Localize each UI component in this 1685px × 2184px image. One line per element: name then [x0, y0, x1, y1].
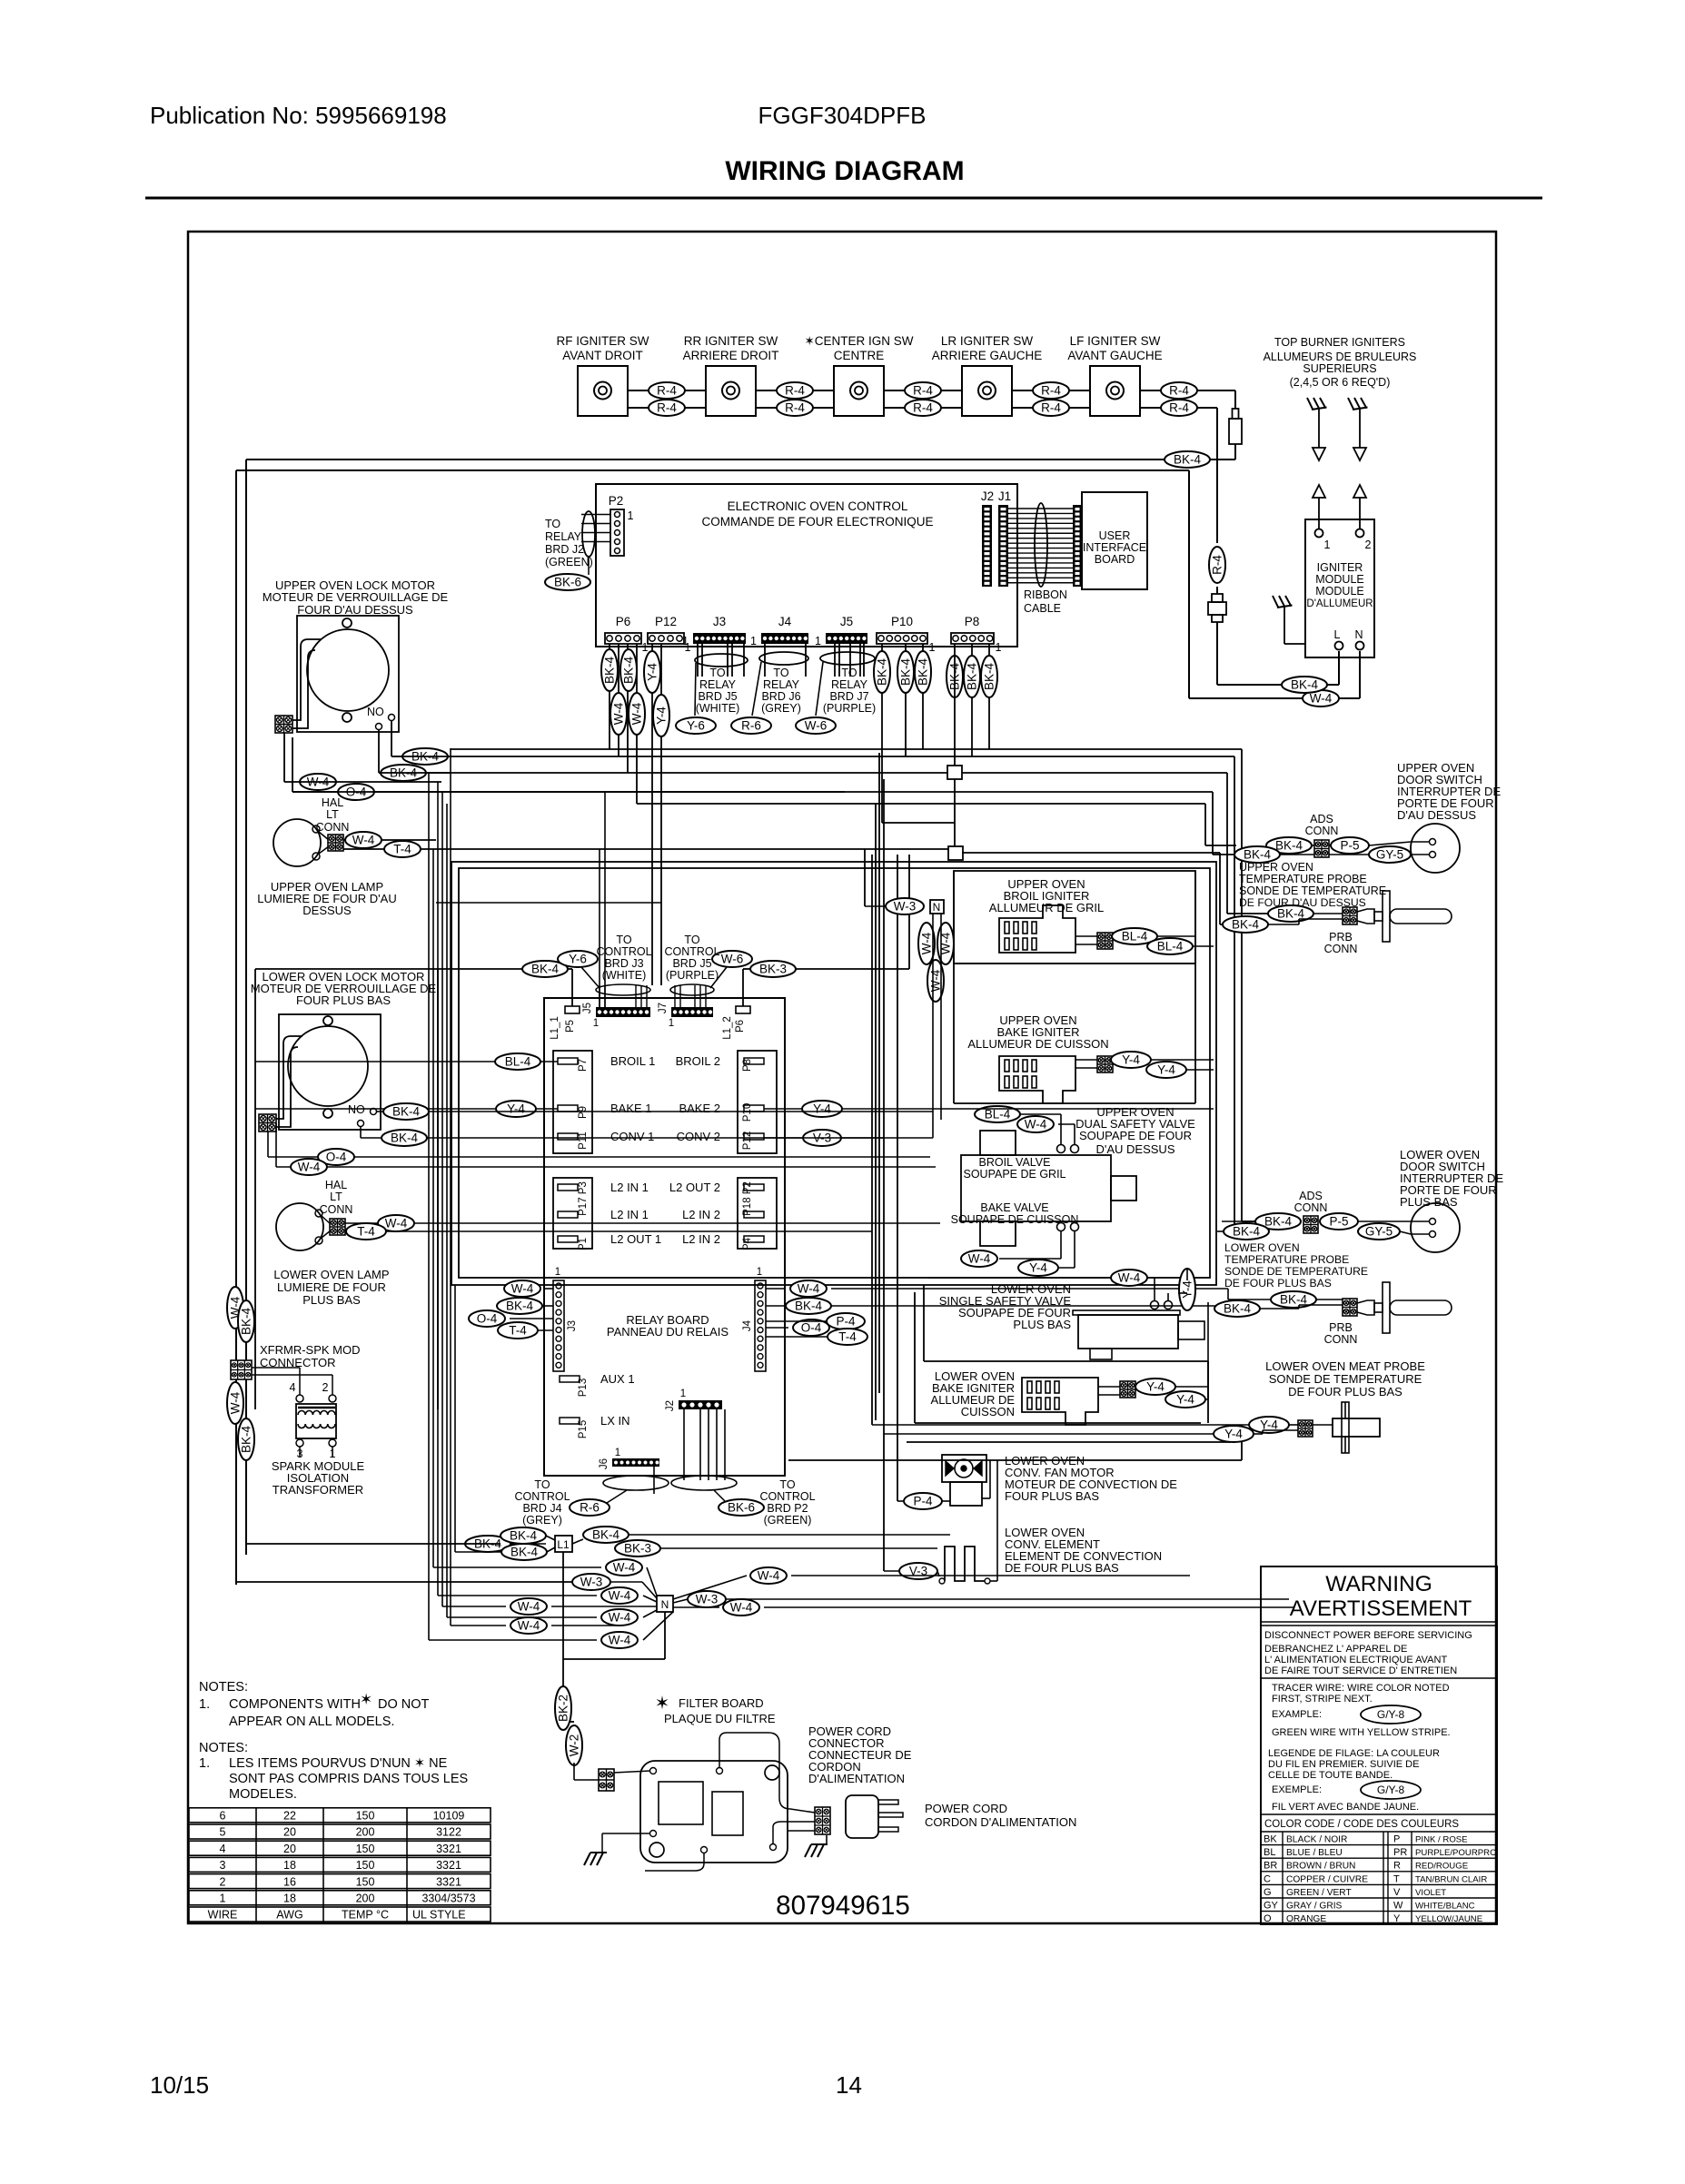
- svg-text:BK-4: BK-4: [391, 1132, 419, 1145]
- bus wire y=851: [379, 772, 1227, 774]
- svg-text:BK-4: BK-4: [1264, 1215, 1293, 1229]
- svg-text:ALLUMEUR DE CUISSON: ALLUMEUR DE CUISSON: [967, 1037, 1108, 1051]
- svg-text:W-4: W-4: [352, 834, 375, 847]
- svg-text:BK-4: BK-4: [1224, 1302, 1252, 1316]
- lower lamp connector: [330, 1219, 345, 1235]
- svg-text:ORANGE: ORANGE: [1286, 1914, 1326, 1924]
- svg-text:R-4: R-4: [913, 384, 933, 398]
- svg-text:ADS: ADS: [1299, 1190, 1323, 1202]
- label oval W-4 (lower motor): [291, 1159, 327, 1175]
- wire J3 bundle to Y-6: [695, 663, 696, 716]
- svg-text:P17 P3: P17 P3: [578, 1181, 589, 1216]
- label oval W-2 vertical: [566, 1725, 582, 1765]
- wire valve bottom Y-4: [1074, 1231, 1075, 1268]
- svg-text:WIRING DIAGRAM: WIRING DIAGRAM: [725, 156, 964, 186]
- label oval BK-4 vertical (P6 b): [620, 649, 637, 691]
- igniter switch box 1 (RF IGNITER SW): [578, 366, 628, 416]
- svg-text:CONTROL: CONTROL: [664, 945, 719, 958]
- svg-text:BLUE / BLEU: BLUE / BLEU: [1286, 1848, 1343, 1858]
- svg-text:LX IN: LX IN: [600, 1414, 630, 1428]
- wire vertical x=1309 (N feed): [1188, 470, 1190, 698]
- wire junction B to upper ADS: [962, 852, 1220, 854]
- svg-text:VIOLET: VIOLET: [1415, 1888, 1446, 1898]
- spark transformer terminals bottom: [296, 1439, 303, 1447]
- wires lower probe: [1316, 1299, 1343, 1300]
- svg-text:R-4: R-4: [785, 384, 805, 398]
- svg-text:P10: P10: [891, 615, 913, 628]
- svg-text:Y-4: Y-4: [1157, 1063, 1175, 1077]
- relay connector J7: [671, 1007, 713, 1017]
- label oval BK-4 (L1 far left): [465, 1536, 510, 1552]
- svg-text:MODULE: MODULE: [1315, 573, 1363, 586]
- central vertical bus: [871, 855, 873, 1425]
- label oval BK-4 (L1 left lower): [501, 1544, 547, 1560]
- svg-text:J5: J5: [840, 615, 853, 628]
- spark module connector: [1212, 594, 1223, 602]
- svg-text:TO: TO: [534, 1478, 550, 1491]
- wire igniter row bottom segment 3: [884, 407, 962, 409]
- svg-text:P-5: P-5: [1329, 1215, 1348, 1229]
- wire L pin vertical: [1338, 651, 1340, 685]
- filter board inner rect A: [659, 1782, 703, 1824]
- wire plug ground: [826, 1835, 828, 1844]
- svg-text:Y-4: Y-4: [1146, 1380, 1165, 1394]
- svg-text:ADS: ADS: [1310, 813, 1333, 825]
- relay board box: [544, 998, 785, 1476]
- svg-text:BRD J5: BRD J5: [672, 957, 711, 970]
- label oval V-3 (conv element): [899, 1563, 937, 1579]
- svg-text:W-4: W-4: [758, 1569, 780, 1583]
- svg-text:D'AU DESSUS: D'AU DESSUS: [1397, 808, 1476, 822]
- svg-text:NOTES:: NOTES:: [199, 1741, 248, 1755]
- label oval BK-4 (lower motor b): [382, 1130, 427, 1146]
- svg-text:WARNING: WARNING: [1325, 1572, 1432, 1596]
- svg-text:W-4: W-4: [612, 702, 626, 725]
- label oval R-4 vertical: [1209, 547, 1225, 583]
- bus wire y=825: [451, 748, 1242, 750]
- wire W-4 to valve top: [1058, 1123, 1075, 1125]
- svg-text:J3: J3: [713, 615, 726, 628]
- svg-text:CONN: CONN: [1294, 1201, 1328, 1214]
- wire valve bottom W-4: [1060, 1231, 1062, 1259]
- svg-text:4: 4: [290, 1381, 296, 1394]
- label oval W-6: [796, 717, 836, 734]
- svg-text:3122: 3122: [436, 1826, 461, 1839]
- svg-text:P8: P8: [965, 615, 980, 628]
- wires lower bake igniter: [1175, 1386, 1208, 1388]
- svg-text:BK-4: BK-4: [592, 1528, 620, 1542]
- upper oven lamp: [273, 819, 321, 866]
- dual valve top port: [980, 1131, 1016, 1155]
- svg-text:W-6: W-6: [721, 953, 744, 966]
- svg-text:BROWN / BRUN: BROWN / BRUN: [1286, 1862, 1355, 1872]
- svg-text:P12: P12: [655, 615, 677, 628]
- lower prb connector and probe: [1343, 1299, 1357, 1316]
- svg-text:1: 1: [680, 1388, 686, 1399]
- svg-text:P-4: P-4: [913, 1495, 933, 1508]
- wire igniter row top segment 4: [1012, 390, 1090, 391]
- svg-text:BK-4: BK-4: [1275, 839, 1303, 853]
- dual valve right port: [1111, 1176, 1136, 1201]
- svg-text:Y-6: Y-6: [569, 953, 587, 966]
- svg-text:RR IGNITER SW: RR IGNITER SW: [684, 334, 778, 348]
- svg-text:TO: TO: [545, 518, 560, 530]
- svg-text:Y-4: Y-4: [1029, 1261, 1047, 1275]
- svg-text:P6: P6: [735, 1020, 746, 1033]
- label oval R-4 top 5: [1161, 382, 1197, 399]
- svg-text:BK-4: BK-4: [531, 963, 560, 976]
- svg-text:P: P: [1393, 1834, 1400, 1845]
- label oval BK-4 (upper probe b): [1223, 916, 1268, 933]
- igniter switch box 5 (LF IGNITER SW): [1090, 366, 1140, 416]
- label oval W-4 vertical (left b): [227, 1382, 243, 1424]
- svg-text:W-6: W-6: [805, 719, 828, 733]
- svg-text:TO: TO: [779, 1478, 795, 1491]
- svg-text:Y-4: Y-4: [646, 663, 659, 681]
- relay right pin block P2/P18/P4: [738, 1178, 777, 1249]
- svg-text:Y-4: Y-4: [1122, 1053, 1140, 1067]
- svg-text:150: 150: [356, 1843, 375, 1855]
- lower door switch: [1411, 1203, 1460, 1252]
- wire O-4 feed to relay J5: [604, 792, 606, 1007]
- svg-text:18: 18: [283, 1859, 296, 1872]
- svg-text:3: 3: [220, 1859, 226, 1872]
- label oval BK-4 vertical (P8 c): [981, 656, 997, 697]
- label oval R-4 top 4: [1033, 382, 1069, 399]
- svg-text:BL-4: BL-4: [505, 1055, 531, 1069]
- svg-text:RF IGNITER SW: RF IGNITER SW: [557, 334, 649, 348]
- upper oven sub-box inner: [459, 868, 1210, 1278]
- svg-text:R-4: R-4: [1041, 384, 1061, 398]
- title rule: [145, 197, 1542, 200]
- label oval R-4 top 1: [649, 382, 685, 399]
- svg-text:R-4: R-4: [1169, 384, 1189, 398]
- svg-text:FGGF304DPFB: FGGF304DPFB: [758, 102, 927, 129]
- label oval Y-4 (bake a): [1111, 1052, 1151, 1068]
- label oval P-5 (ads upper): [1331, 837, 1369, 854]
- svg-text:MODULE: MODULE: [1315, 585, 1363, 598]
- svg-text:(WHITE): (WHITE): [696, 702, 740, 715]
- ribbon cable wires: [1008, 508, 1073, 509]
- svg-text:(2,4,5 OR 6 REQ'D): (2,4,5 OR 6 REQ'D): [1290, 376, 1391, 389]
- warning box: [1261, 1566, 1497, 1924]
- svg-text:BK-4: BK-4: [240, 1308, 253, 1336]
- svg-text:R-4: R-4: [1211, 555, 1224, 575]
- svg-text:G: G: [1264, 1887, 1272, 1898]
- wire lower NO BK-4: [377, 1111, 391, 1112]
- svg-text:BK-4: BK-4: [899, 658, 913, 687]
- svg-text:BK-4: BK-4: [1244, 848, 1272, 862]
- wire J5 bundle to W-6: [816, 662, 823, 716]
- wire left vertical x=260: [235, 470, 237, 1585]
- label oval BK-4 vertical (P10 a): [874, 651, 890, 693]
- svg-text:(WHITE): (WHITE): [602, 969, 647, 982]
- svg-text:BK-4: BK-4: [510, 1529, 538, 1543]
- exemple oval G/Y-8: [1361, 1781, 1421, 1799]
- xfrmr connector: [231, 1360, 252, 1379]
- igniter switch box 2 (RR IGNITER SW): [706, 366, 756, 416]
- svg-text:DESSUS: DESSUS: [302, 904, 352, 917]
- svg-text:BK-4: BK-4: [603, 657, 617, 685]
- label oval W-4 (module N): [1303, 690, 1339, 707]
- svg-text:6: 6: [220, 1810, 226, 1823]
- label oval BK-2 vertical: [555, 1686, 571, 1730]
- label oval Y-6: [676, 717, 716, 734]
- svg-text:USER: USER: [1099, 529, 1131, 542]
- wire igniter row top segment 1: [628, 390, 706, 391]
- wires J3 pins down: [697, 644, 699, 677]
- svg-text:TRANSFORMER: TRANSFORMER: [273, 1483, 363, 1497]
- svg-text:COMMANDE DE FOUR ELECTRONIQUE: COMMANDE DE FOUR ELECTRONIQUE: [701, 515, 933, 529]
- svg-text:SONDE DE TEMPERATURE: SONDE DE TEMPERATURE: [1269, 1372, 1422, 1386]
- label ovals W-4 cluster around N: [606, 1559, 642, 1576]
- upper broil igniter box: [954, 871, 1195, 964]
- svg-text:T-4: T-4: [509, 1324, 527, 1338]
- svg-text:EXEMPLE:: EXEMPLE:: [1272, 1784, 1322, 1795]
- svg-text:3: 3: [297, 1448, 303, 1460]
- wire filter pad to ground: [602, 1833, 650, 1834]
- svg-text:HAL: HAL: [325, 1179, 347, 1191]
- svg-text:EXAMPLE:: EXAMPLE:: [1272, 1709, 1322, 1720]
- svg-text:GY-5: GY-5: [1376, 848, 1403, 862]
- svg-text:BK-4: BK-4: [1232, 918, 1260, 932]
- svg-text:T-4: T-4: [357, 1225, 375, 1239]
- wire left vertical x=271: [245, 460, 247, 1555]
- svg-text:BROIL 2: BROIL 2: [676, 1054, 720, 1068]
- wires out of N right: [673, 1576, 747, 1599]
- svg-text:R-4: R-4: [785, 401, 805, 415]
- svg-text:BK: BK: [1264, 1834, 1277, 1845]
- svg-text:R-4: R-4: [657, 401, 677, 415]
- wire J4 bundle to R-6: [752, 662, 761, 716]
- svg-text:PINK / ROSE: PINK / ROSE: [1415, 1835, 1468, 1845]
- label oval W-4 (valve bottom): [961, 1250, 997, 1267]
- svg-text:CELLE DE TOUTE BANDE.: CELLE DE TOUTE BANDE.: [1268, 1770, 1393, 1781]
- label oval R-4 bottom 2: [777, 400, 813, 416]
- svg-text:R-4: R-4: [1169, 401, 1189, 415]
- svg-text:W-3: W-3: [894, 900, 917, 914]
- label oval BK-4 vertical (P8 b): [964, 656, 980, 697]
- svg-text:L2 OUT 1: L2 OUT 1: [610, 1232, 661, 1246]
- svg-text:SUPERIEURS: SUPERIEURS: [1303, 362, 1376, 375]
- wires lower ads: [1222, 1220, 1255, 1222]
- svg-text:W-2: W-2: [568, 1734, 581, 1757]
- svg-text:P15: P15: [578, 1420, 589, 1438]
- label oval W-4 vertical (N a): [918, 923, 935, 964]
- wires P12 pins down: [651, 644, 653, 985]
- svg-text:RED/ROUGE: RED/ROUGE: [1415, 1862, 1468, 1872]
- svg-text:(GREY): (GREY): [522, 1514, 562, 1527]
- label oval BK-4 vertical (left): [238, 1300, 254, 1342]
- label oval BK-4 vertical (P8 a): [947, 656, 963, 697]
- svg-text:TEMPERATURE PROBE: TEMPERATURE PROBE: [1239, 873, 1367, 885]
- svg-text:J2: J2: [665, 1400, 676, 1411]
- relay J4 ovals right: [790, 1280, 827, 1297]
- svg-text:W-4: W-4: [609, 1611, 631, 1625]
- svg-text:COMPONENTS WITH: COMPONENTS WITH: [229, 1697, 361, 1712]
- igniter module pin 2: [1356, 529, 1364, 538]
- wire BK-6 drop: [588, 557, 590, 575]
- svg-text:200: 200: [356, 1892, 375, 1905]
- svg-text:CONN: CONN: [320, 1203, 353, 1216]
- svg-text:✶CENTER IGN SW: ✶CENTER IGN SW: [804, 334, 913, 348]
- wire BK-6 to ellipse: [714, 1490, 725, 1501]
- svg-text:GY-5: GY-5: [1365, 1225, 1393, 1239]
- wire single valve Y-4 chain: [1186, 1269, 1188, 1280]
- label oval R-6: [731, 717, 771, 734]
- cable ellipse J4: [759, 652, 808, 665]
- label oval W-4 (valve): [1017, 1116, 1054, 1132]
- node L1: [555, 1536, 572, 1552]
- label oval BL-4 (broil b): [1147, 938, 1193, 954]
- label oval BK-6 (to control P2): [719, 1499, 764, 1516]
- wires lower motor connector: [276, 1036, 302, 1119]
- wire upper lamp W-4: [343, 839, 436, 841]
- label oval BK-4 (L1 right): [583, 1527, 629, 1543]
- svg-text:FILTER BOARD: FILTER BOARD: [679, 1696, 764, 1710]
- svg-text:LOWER OVEN MEAT PROBE: LOWER OVEN MEAT PROBE: [1265, 1359, 1425, 1373]
- label oval R-4 top 3: [905, 382, 941, 399]
- svg-text:DE FAIRE TOUT SERVICE D' E: DE FAIRE TOUT SERVICE D' ENTRETIEN: [1264, 1665, 1457, 1676]
- svg-text:20: 20: [283, 1826, 296, 1839]
- svg-text:T: T: [1393, 1873, 1400, 1884]
- svg-text:W-3: W-3: [696, 1593, 719, 1606]
- label oval BK-3 (relay top): [750, 961, 796, 977]
- svg-text:TEMP °C: TEMP °C: [342, 1909, 389, 1922]
- svg-text:GREEN / VERT: GREEN / VERT: [1286, 1888, 1352, 1898]
- svg-text:O-4: O-4: [477, 1312, 498, 1326]
- label oval BK-4 (module L): [1282, 677, 1327, 693]
- svg-text:W-4: W-4: [920, 932, 934, 954]
- svg-text:BRD P2: BRD P2: [767, 1502, 808, 1515]
- svg-text:BK-4: BK-4: [983, 663, 996, 691]
- label oval W-4 (lower lamp): [378, 1215, 414, 1231]
- wire T-4 feed to relay J5: [599, 849, 600, 1007]
- power cord plug: [846, 1795, 878, 1838]
- svg-text:APPEAR ON ALL MODELS.: APPEAR ON ALL MODELS.: [229, 1715, 394, 1729]
- lower oven lamp: [276, 1203, 323, 1250]
- svg-text:FOUR D'AU DESSUS: FOUR D'AU DESSUS: [297, 603, 413, 617]
- label oval BK-4 vertical (P10 c): [915, 651, 931, 693]
- svg-text:1: 1: [220, 1892, 226, 1905]
- svg-text:1: 1: [682, 635, 689, 647]
- svg-text:SOUPAPE DE CUISSON: SOUPAPE DE CUISSON: [951, 1213, 1079, 1226]
- svg-text:BL-4: BL-4: [1157, 940, 1184, 954]
- svg-text:L1: L1: [557, 1538, 570, 1551]
- wire W-4 to valve terminal: [1152, 1277, 1155, 1279]
- svg-text:1: 1: [555, 1267, 560, 1278]
- relay J7 cable ellipse: [670, 984, 714, 995]
- igniter channel 2 spark symbol: [1353, 408, 1368, 410]
- wires below N: [932, 914, 934, 1138]
- svg-text:1.: 1.: [199, 1697, 210, 1712]
- svg-text:NOTES:: NOTES:: [199, 1680, 248, 1695]
- svg-text:BLACK / NOIR: BLACK / NOIR: [1286, 1835, 1347, 1845]
- svg-text:1: 1: [593, 1018, 599, 1029]
- svg-text:RIBBON: RIBBON: [1024, 588, 1067, 601]
- svg-text:LOWER OVEN LAMP: LOWER OVEN LAMP: [273, 1268, 389, 1281]
- svg-text:18: 18: [283, 1892, 296, 1905]
- svg-text:P4: P4: [742, 1237, 753, 1250]
- wire lower lamp W-4: [345, 1222, 940, 1224]
- wires xfrmr connector to transformer: [252, 1367, 300, 1369]
- svg-text:P-4: P-4: [836, 1315, 856, 1329]
- svg-text:L2 IN 2: L2 IN 2: [682, 1208, 720, 1221]
- filter board pads: [650, 1768, 657, 1774]
- wire igniter row top segment 2: [756, 390, 834, 391]
- svg-text:P18 P2: P18 P2: [742, 1181, 753, 1216]
- svg-text:2: 2: [322, 1381, 329, 1394]
- svg-text:LOWER OVEN: LOWER OVEN: [1224, 1241, 1300, 1254]
- svg-text:L1_1: L1_1: [550, 1016, 560, 1040]
- user interface board box: [1082, 492, 1147, 589]
- svg-text:1: 1: [750, 635, 757, 647]
- svg-text:BAKE VALVE: BAKE VALVE: [980, 1201, 1048, 1214]
- label oval W-4 vertical (N b): [937, 923, 954, 964]
- filter board connector: [599, 1769, 614, 1791]
- svg-text:1: 1: [815, 635, 821, 647]
- svg-text:PRB: PRB: [1329, 1321, 1353, 1334]
- wire motor NO to BK-4: [391, 720, 392, 756]
- junction square B: [948, 846, 963, 860]
- dual valve bottom terminals: [1057, 1223, 1066, 1231]
- svg-text:5: 5: [220, 1826, 226, 1839]
- svg-text:R-6: R-6: [741, 719, 761, 733]
- svg-text:J4: J4: [742, 1319, 753, 1331]
- svg-text:W: W: [1393, 1901, 1403, 1912]
- svg-text:AVANT GAUCHE: AVANT GAUCHE: [1067, 349, 1162, 362]
- svg-text:BK-4: BK-4: [392, 1105, 421, 1119]
- label oval R-4 bottom 4: [1033, 400, 1069, 416]
- label oval T-4 (lower lamp): [346, 1223, 386, 1240]
- svg-text:(GREEN): (GREEN): [545, 556, 593, 568]
- svg-text:TRACER WIRE: WIRE COLOR NOTED: TRACER WIRE: WIRE COLOR NOTED: [1272, 1683, 1450, 1694]
- svg-text:TO: TO: [684, 934, 699, 946]
- broil igniter connector: [1097, 933, 1113, 949]
- svg-text:Y-4: Y-4: [1181, 1280, 1194, 1299]
- svg-text:150: 150: [356, 1875, 375, 1888]
- igniter channel 2 up-arrow: [1353, 485, 1366, 498]
- svg-text:R: R: [1393, 1861, 1401, 1872]
- svg-text:1: 1: [669, 1018, 674, 1029]
- svg-text:FIL VERT AVEC BANDE JAUNE.: FIL VERT AVEC BANDE JAUNE.: [1272, 1802, 1419, 1813]
- svg-text:1: 1: [615, 1448, 620, 1458]
- svg-text:BK-4: BK-4: [917, 658, 930, 687]
- upper oven lock motor box: [297, 616, 399, 732]
- lower lock motor connector: [259, 1114, 276, 1132]
- label oval W-4 vertical (left): [227, 1287, 243, 1329]
- svg-text:LR IGNITER SW: LR IGNITER SW: [941, 334, 1034, 348]
- svg-text:AWG: AWG: [276, 1909, 302, 1922]
- svg-text:COPPER / CUIVRE: COPPER / CUIVRE: [1286, 1874, 1368, 1884]
- svg-text:POWER CORD: POWER CORD: [925, 1802, 1007, 1815]
- svg-text:NO: NO: [348, 1103, 365, 1116]
- dual valve top terminals: [1057, 1145, 1066, 1153]
- bus corner x=1335 down: [1212, 792, 1214, 855]
- wires P8 pins down: [971, 644, 973, 756]
- upper bake igniter element: [999, 1056, 1075, 1103]
- wire N down: [664, 1612, 666, 1659]
- svg-text:PLUS BAS: PLUS BAS: [302, 1293, 361, 1307]
- svg-text:SONDE DE TEMPERATURE: SONDE DE TEMPERATURE: [1239, 884, 1386, 897]
- svg-text:P12: P12: [742, 1132, 753, 1150]
- lower oven sub-box left edge: [254, 969, 256, 1409]
- svg-text:10/15: 10/15: [150, 2071, 209, 2099]
- svg-text:SOUPAPE DE GRIL: SOUPAPE DE GRIL: [964, 1168, 1066, 1181]
- svg-text:ALLUMEURS DE BRULEURS: ALLUMEURS DE BRULEURS: [1264, 351, 1417, 363]
- svg-text:W-4: W-4: [968, 1252, 991, 1266]
- wire O-4 lower motor: [267, 1132, 269, 1157]
